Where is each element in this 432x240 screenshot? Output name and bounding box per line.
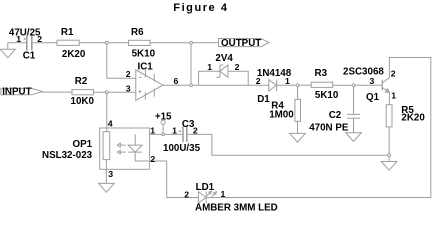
- svg-text:R3: R3: [315, 68, 328, 79]
- svg-text:Q1: Q1: [366, 92, 380, 103]
- svg-text:2K20: 2K20: [62, 49, 86, 60]
- svg-text:2: 2: [235, 62, 240, 72]
- svg-text:C2: C2: [329, 110, 342, 121]
- svg-text:470N PE: 470N PE: [309, 122, 349, 133]
- svg-text:3: 3: [126, 83, 131, 93]
- svg-text:AMBER 3MM LED: AMBER 3MM LED: [195, 203, 278, 214]
- svg-text:NSL32-023: NSL32-023: [42, 150, 93, 161]
- svg-text:Figure 4: Figure 4: [173, 2, 228, 14]
- svg-text:1M00: 1M00: [269, 109, 294, 120]
- svg-text:3: 3: [108, 169, 113, 179]
- svg-text:OUTPUT: OUTPUT: [221, 38, 261, 49]
- svg-text:+15: +15: [155, 112, 172, 123]
- svg-text:5K10: 5K10: [132, 49, 156, 60]
- svg-text:INPUT: INPUT: [2, 87, 31, 98]
- svg-text:1: 1: [221, 189, 226, 199]
- svg-text:1: 1: [150, 126, 155, 136]
- svg-text:1: 1: [172, 126, 177, 136]
- svg-text:6: 6: [174, 76, 179, 86]
- svg-text:2: 2: [37, 34, 42, 44]
- svg-text:1: 1: [285, 76, 290, 86]
- svg-text:1: 1: [207, 62, 212, 72]
- svg-text:10K0: 10K0: [71, 96, 95, 107]
- svg-text:47U/25: 47U/25: [9, 27, 41, 38]
- svg-text:1: 1: [16, 34, 21, 44]
- svg-text:2: 2: [391, 68, 396, 78]
- svg-text:IC1: IC1: [138, 61, 154, 72]
- svg-text:R2: R2: [75, 76, 88, 87]
- svg-text:1: 1: [391, 91, 396, 101]
- svg-text:2: 2: [256, 76, 261, 86]
- svg-text:100U/35: 100U/35: [163, 143, 201, 154]
- svg-text:C1: C1: [23, 51, 36, 62]
- svg-text:2: 2: [193, 126, 198, 136]
- svg-text:R1: R1: [61, 27, 74, 38]
- svg-text:D1: D1: [257, 94, 270, 105]
- svg-text:2K20: 2K20: [401, 113, 425, 124]
- svg-text:2: 2: [126, 69, 131, 79]
- svg-text:2: 2: [150, 154, 155, 164]
- svg-text:2V4: 2V4: [215, 53, 233, 64]
- svg-text:OP1: OP1: [73, 139, 93, 150]
- svg-text:2SC3068: 2SC3068: [343, 66, 384, 77]
- svg-text:R6: R6: [131, 27, 144, 38]
- svg-text:4: 4: [108, 119, 113, 129]
- svg-text:3: 3: [370, 76, 375, 86]
- svg-text:LD1: LD1: [196, 182, 215, 193]
- svg-text:5K10: 5K10: [315, 90, 339, 101]
- svg-text:2: 2: [184, 189, 189, 199]
